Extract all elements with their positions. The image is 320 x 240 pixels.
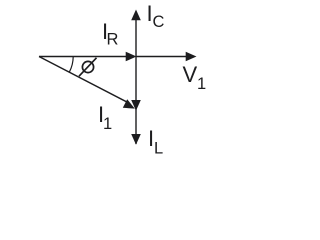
vector I_C (vertical axis up)	[131, 10, 141, 145]
svg-text:C: C	[153, 13, 165, 31]
label I_C	[147, 1, 165, 31]
arrowhead net reactive (down on vertical axis)	[131, 100, 141, 111]
svg-text:V: V	[183, 62, 198, 87]
svg-text:1: 1	[103, 115, 112, 133]
vector I_R (horizontal, tip at origin)	[39, 52, 137, 62]
label I_L	[148, 126, 163, 158]
label I_R	[102, 19, 119, 49]
angle arc phi	[69, 57, 73, 73]
svg-text:1: 1	[197, 75, 206, 93]
vector I_L (vertical down)	[131, 134, 141, 145]
vector V_1 (horizontal right)	[136, 52, 197, 62]
label V_1	[183, 62, 207, 93]
vector I_1 (diagonal down-right)	[39, 57, 135, 109]
phi symbol	[79, 58, 97, 76]
label I_1	[98, 102, 112, 133]
svg-text:R: R	[107, 31, 119, 49]
svg-text:L: L	[154, 140, 163, 158]
